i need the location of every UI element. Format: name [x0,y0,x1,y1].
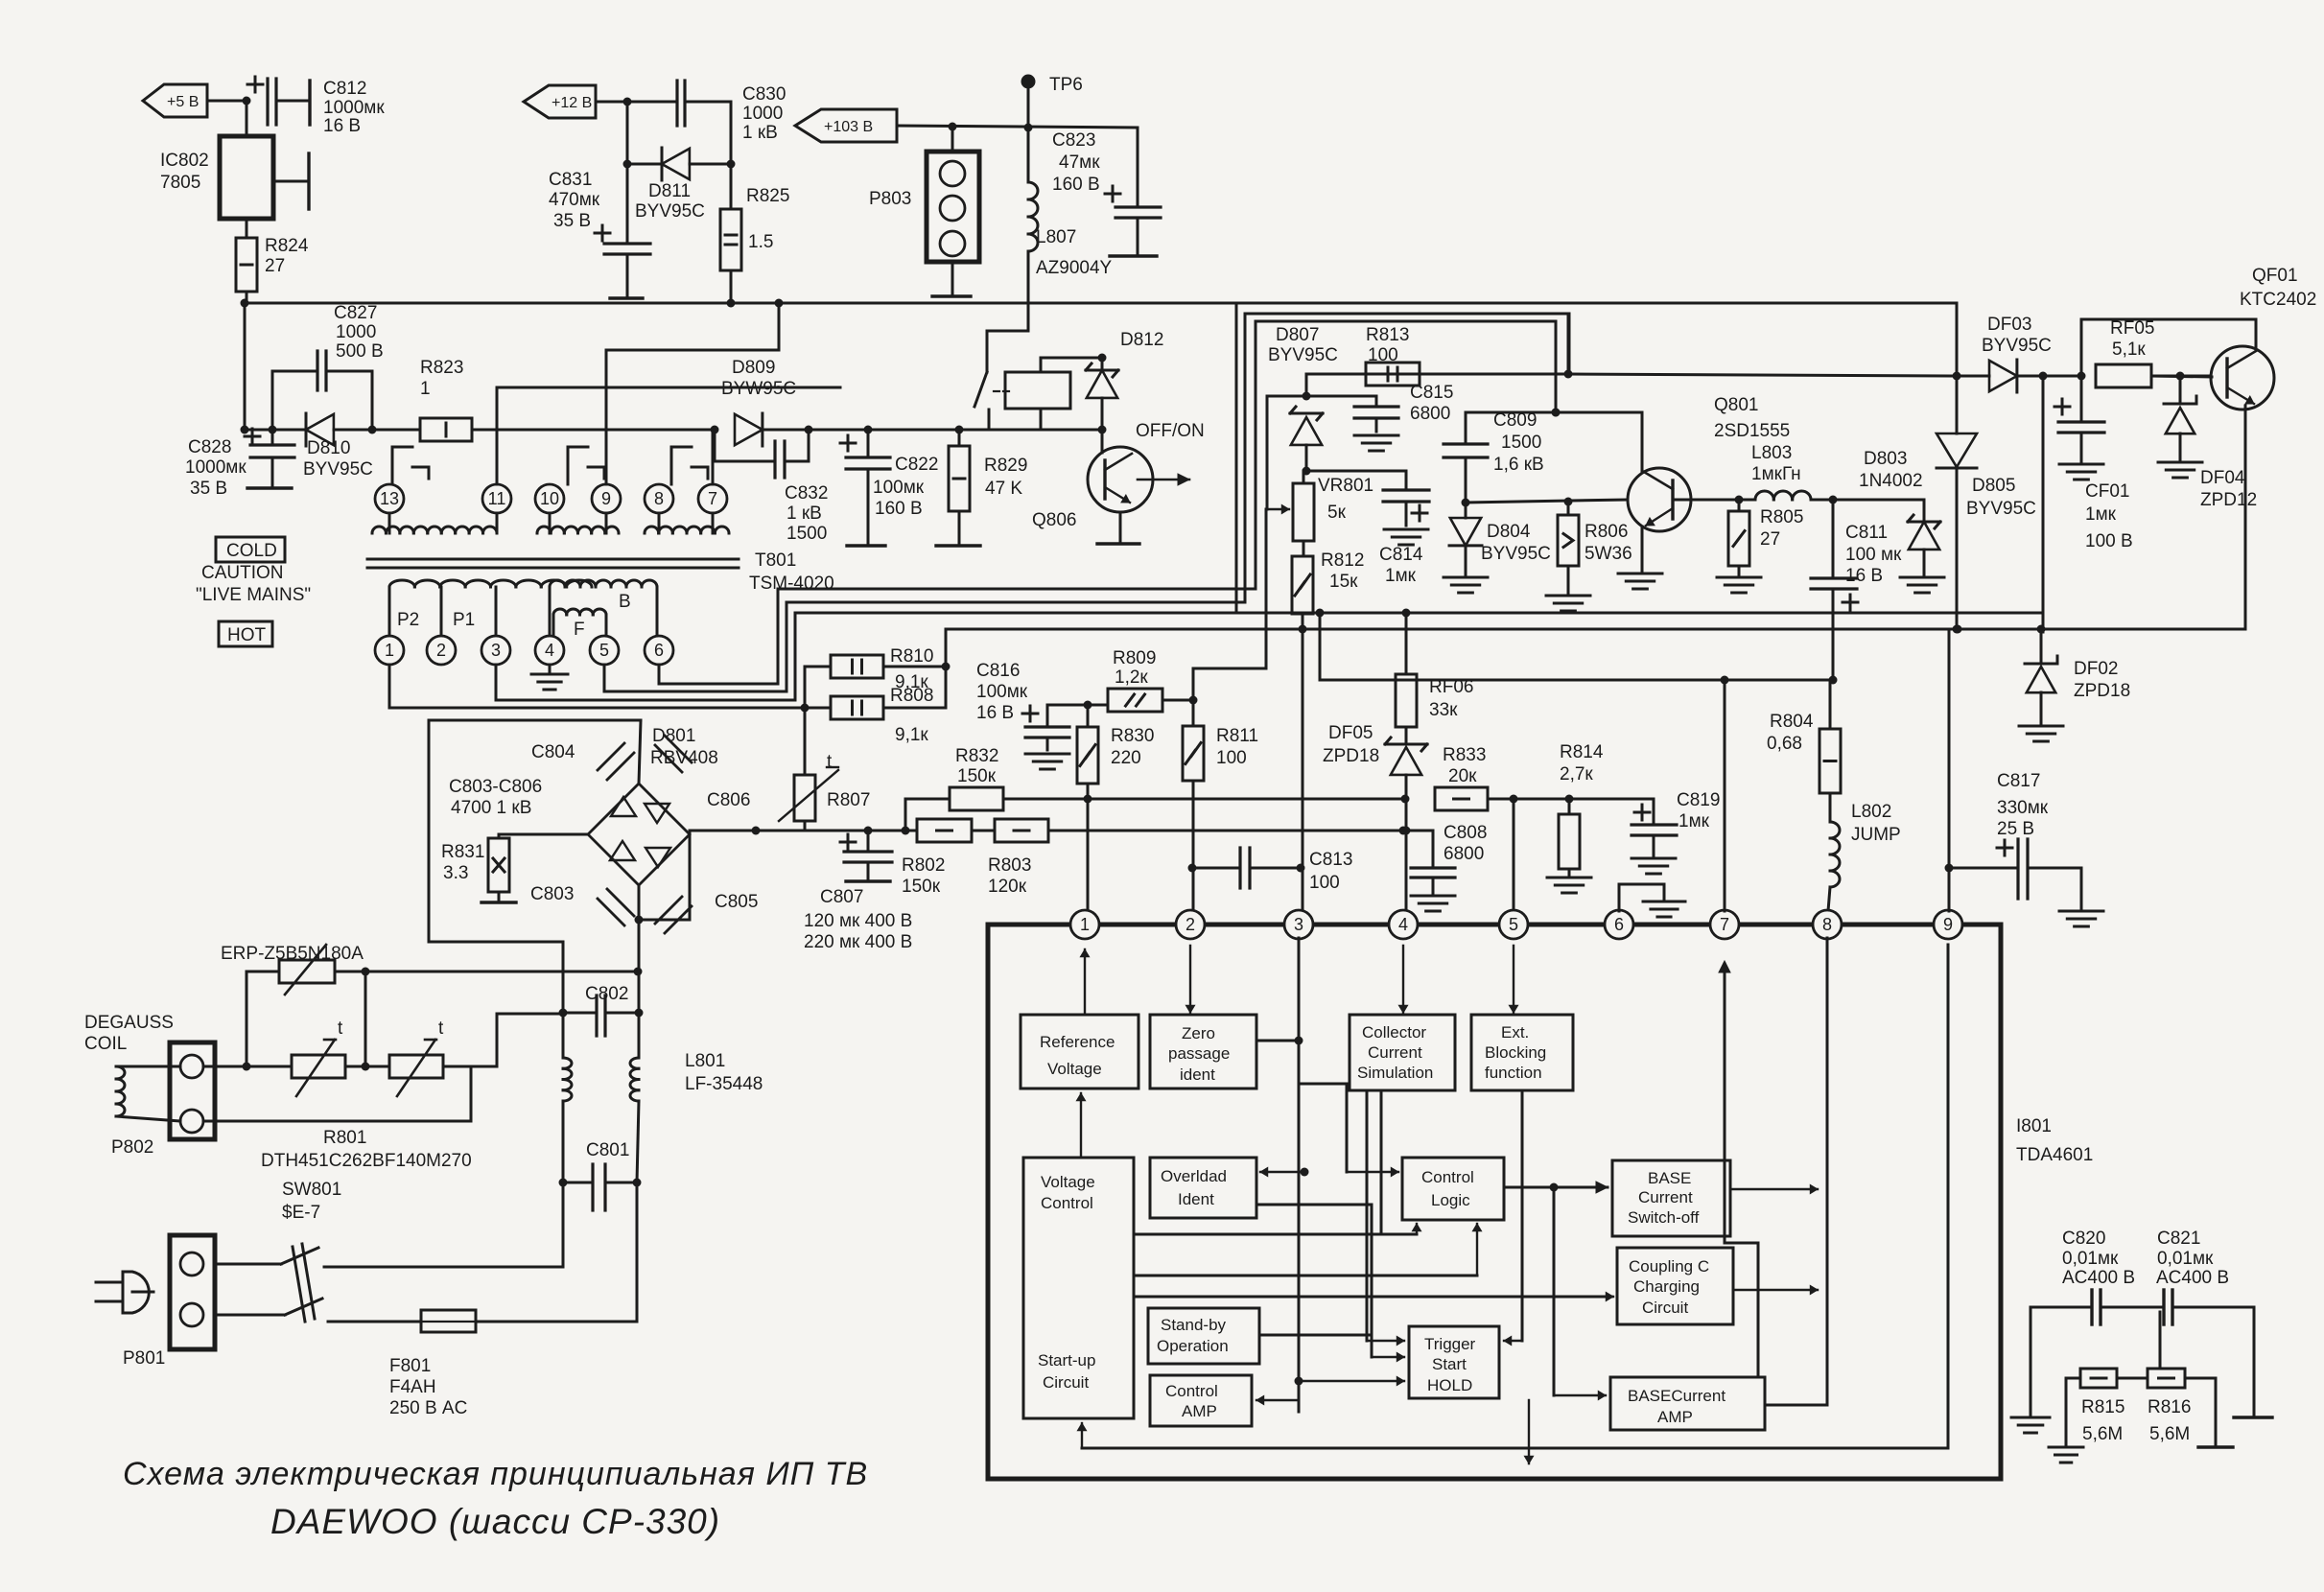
svg-text:3: 3 [1294,915,1303,934]
wire [1765,1404,1827,1407]
connector P802 [170,1042,215,1139]
svg-text:RF05: RF05 [2110,318,2154,339]
svg-text:C809: C809 [1493,410,1537,431]
svg-text:AC400 В: AC400 В [2062,1268,2135,1288]
label C805 [715,892,758,912]
label D812 [1120,330,1163,350]
svg-text:OFF/ON: OFF/ON [1136,421,1205,441]
svg-text:2: 2 [436,641,446,660]
label R805 [1760,507,1803,550]
relay coil [1005,354,1107,431]
svg-text:DF03: DF03 [1987,315,2031,335]
block Control AMP [1150,1375,1252,1426]
svg-text:1000: 1000 [742,104,783,124]
svg-text:100 В: 100 В [2085,531,2133,551]
svg-text:t: t [338,1018,343,1039]
svg-text:C805: C805 [715,892,758,912]
label R823 [420,358,463,399]
svg-text:160 В: 160 В [875,499,923,519]
block Zero passage ident [1150,1015,1256,1089]
svg-text:8: 8 [654,489,664,508]
svg-text:6800: 6800 [1410,404,1450,424]
resistor RF06 [1396,613,1417,727]
svg-text:4700 1 кВ: 4700 1 кВ [451,798,531,818]
label C820 [2062,1229,2135,1288]
svg-text:1 кВ: 1 кВ [786,503,822,524]
resistor R825 [720,164,741,270]
svg-text:BYV95C: BYV95C [1481,544,1551,564]
svg-text:100 мк: 100 мк [1845,545,1902,565]
svg-text:25 В: 25 В [1997,819,2034,839]
label DF03 [1982,315,2052,356]
wire pin9 top [1948,868,1951,911]
svg-text:Trigger: Trigger [1424,1335,1476,1353]
svg-text:100: 100 [1368,345,1398,365]
svg-text:BASE: BASE [1648,1169,1691,1187]
label R816 [2148,1397,2191,1444]
svg-text:R808: R808 [890,686,933,706]
wire [1299,1376,1404,1385]
svg-text:330мк: 330мк [1997,798,2049,818]
svg-text:8: 8 [1822,915,1832,934]
svg-text:470мк: 470мк [549,190,600,210]
svg-text:D812: D812 [1120,330,1163,350]
svg-text:Q801: Q801 [1714,395,1758,415]
svg-text:AZ9004Y: AZ9004Y [1036,258,1113,278]
label R814 [1560,742,1604,784]
svg-text:1000мк: 1000мк [323,98,385,118]
label C832 [785,483,828,544]
label OFF/ON [1136,421,1205,441]
label C809 [1493,410,1544,475]
svg-text:D804: D804 [1487,522,1531,542]
svg-text:9,1к: 9,1к [895,725,928,745]
pin 6 [645,636,673,665]
ground [531,665,568,690]
label D809 [721,358,796,399]
svg-text:7805: 7805 [160,173,200,193]
ground wire [936,511,980,546]
wire [1466,409,1642,417]
label C813 [1309,850,1352,893]
label R833 [1443,745,1486,786]
svg-text:R809: R809 [1113,648,1156,668]
svg-text:BYV95C: BYV95C [635,201,705,222]
svg-text:DAEWOO (шасси СР-330): DAEWOO (шасси СР-330) [270,1502,720,1541]
block Voltage Control Start-up Circuit [1023,1158,1134,1418]
svg-text:2: 2 [1185,915,1195,934]
svg-text:R824: R824 [265,236,309,256]
connector P803 [927,127,979,295]
svg-text:150к: 150к [957,766,997,786]
svg-text:3.3: 3.3 [443,863,468,883]
wire [1488,795,1654,804]
svg-text:100мк: 100мк [873,478,925,498]
block BASECurrent AMP [1610,1377,1765,1430]
svg-text:C803-C806: C803-C806 [449,777,542,797]
regulator IC802 [220,136,273,219]
capacitor C830 [627,81,731,126]
label C801 [586,1140,629,1160]
label VR801 [1318,476,1373,523]
svg-text:5: 5 [1509,915,1518,934]
label L807 [1036,227,1113,278]
svg-text:100: 100 [1309,873,1340,893]
label C814 [1379,545,1423,586]
svg-text:R816: R816 [2148,1397,2191,1417]
diode D809 [735,413,813,446]
svg-text:ZPD18: ZPD18 [2074,681,2130,701]
svg-text:1,2к: 1,2к [1115,667,1148,688]
svg-text:ident: ident [1180,1065,1215,1084]
wire arrow ref [1076,1093,1085,1158]
svg-text:BYV95C: BYV95C [303,459,373,480]
wire [635,920,644,1018]
svg-text:R812: R812 [1321,550,1364,571]
label Q801 [1714,395,1790,441]
label C806 [707,790,750,810]
wire [1134,1224,1482,1276]
svg-text:220: 220 [1111,748,1141,768]
svg-text:1мк: 1мк [2085,504,2117,525]
IC pin 4 [1389,910,1418,939]
label R829 [984,456,1027,499]
label C830 [742,84,786,143]
label R830 [1111,726,1154,768]
label C821 [2156,1229,2229,1288]
IC pin 6 [1605,910,1633,939]
svg-text:C811: C811 [1845,523,1888,543]
pin 10 [535,484,564,513]
svg-text:Current: Current [1638,1188,1693,1206]
resistor R831 [481,834,588,902]
label P802 [111,1137,153,1158]
label R809 [1113,648,1156,688]
label C828 [185,437,246,499]
svg-text:HOLD: HOLD [1427,1376,1472,1394]
wire [497,387,840,484]
switch [974,331,1028,430]
svg-text:Simulation: Simulation [1357,1064,1433,1082]
svg-text:C808: C808 [1444,823,1487,843]
wire emitter QF01 [2043,406,2245,629]
svg-text:Control: Control [1165,1382,1218,1400]
svg-text:1000мк: 1000мк [185,457,246,478]
svg-text:15к: 15к [1329,572,1358,592]
svg-text:C822: C822 [895,455,938,475]
svg-text:AC400 В: AC400 В [2156,1268,2229,1288]
caption line2 [270,1502,720,1541]
svg-text:HOT: HOT [227,625,267,645]
svg-text:D809: D809 [732,358,775,378]
svg-text:160 В: 160 В [1052,175,1100,195]
label L803 [1751,443,1801,484]
svg-text:C817: C817 [1997,771,2040,791]
svg-text:Control: Control [1421,1168,1474,1186]
label D803 [1859,449,1923,491]
diode DF03 [1957,360,2048,392]
svg-text:AMP: AMP [1182,1402,1217,1420]
svg-text:Coupling C: Coupling C [1629,1257,1709,1276]
svg-text:4: 4 [1398,915,1408,934]
label C811 [1845,523,1902,586]
svg-text:1N4002: 1N4002 [1859,471,1923,491]
wire row [1048,827,1408,835]
wire pin6 bus [659,321,1561,684]
svg-text:SW801: SW801 [282,1180,341,1200]
wire [904,799,907,831]
svg-text:27: 27 [265,256,285,276]
svg-text:P801: P801 [123,1348,165,1369]
pin 5 [590,636,619,665]
capacitor C814 [1306,471,1429,545]
svg-text:1: 1 [1080,915,1090,934]
svg-text:+103 В: +103 В [824,119,873,135]
secondary winding [537,513,619,533]
wire [273,153,309,209]
secondary winding [372,513,497,533]
wire [1504,1090,1522,1346]
resistor R805 [1717,500,1761,593]
svg-text:0,68: 0,68 [1767,734,1802,754]
svg-text:9: 9 [601,489,611,508]
wire [246,101,248,136]
connector P801 [153,1235,215,1349]
diode D805 [1937,303,1977,634]
winding B [550,580,657,636]
thermistor R801b [203,972,389,1096]
svg-text:R811: R811 [1216,726,1258,746]
wire [712,430,715,484]
resistor R803 [995,819,1048,842]
fuse F801 [421,1310,637,1332]
wire pin8 inner [1826,938,1829,1405]
label T801 [749,550,834,594]
svg-text:13: 13 [380,489,399,508]
svg-text:Control: Control [1041,1194,1093,1212]
svg-text:R823: R823 [420,358,463,378]
wire row [1569,374,1957,376]
caption line1 [123,1456,868,1492]
ground pin6 [1619,884,1685,917]
wire [959,429,989,432]
svg-text:Q806: Q806 [1032,510,1076,530]
label Q806 [1032,510,1076,530]
label C804 [531,742,575,762]
IC pin 5 [1499,910,1528,939]
svg-text:C831: C831 [549,170,592,190]
svg-text:RBV408: RBV408 [650,748,718,768]
svg-text:Reference: Reference [1040,1033,1115,1051]
label F801 [389,1356,467,1418]
diode D807 wire [1303,374,1570,401]
svg-text:C828: C828 [188,437,231,457]
inductor L803 [1739,491,1838,504]
resistor R809 [1088,689,1162,712]
label D811 [635,181,705,222]
svg-text:D811: D811 [648,181,691,201]
wire pin3 bus [496,613,2043,700]
svg-text:C819: C819 [1677,790,1720,810]
svg-text:R830: R830 [1111,726,1154,746]
svg-text:Logic: Logic [1431,1191,1470,1209]
wire collector QF01 [2081,319,2256,376]
label R824 [265,236,309,276]
svg-text:120к: 120к [988,877,1027,897]
svg-text:4: 4 [545,641,554,660]
pin 11 [482,484,511,513]
svg-text:L803: L803 [1751,443,1792,463]
wire [1673,496,1744,504]
svg-text:C804: C804 [531,742,575,762]
block Overldad Ident [1150,1158,1256,1218]
resistor R824 [236,238,257,292]
block BASE Current Switch-off [1612,1160,1730,1236]
svg-text:COLD: COLD [226,541,277,561]
svg-text:16 В: 16 В [323,116,361,136]
label IC802 [160,151,209,193]
thermistor R801c [389,1040,497,1096]
svg-text:150к: 150к [902,877,941,897]
label B [619,592,631,612]
svg-text:F801: F801 [389,1356,431,1376]
wire [1299,1084,1398,1177]
svg-text:1500: 1500 [786,524,827,544]
svg-text:TSM-4020: TSM-4020 [749,574,834,594]
wire bridge out [635,831,691,925]
svg-text:R802: R802 [902,855,945,876]
svg-text:BYV95C: BYV95C [1982,336,2052,356]
label C803 [530,884,574,904]
capacitor C816 [1025,701,1092,770]
svg-text:C813: C813 [1309,850,1352,870]
label HOT [219,621,272,646]
label P801 [123,1348,165,1369]
svg-text:R810: R810 [890,646,933,667]
block Stand-by Operation [1148,1308,1259,1364]
label ERP [221,944,364,964]
IC pin 3 [1284,910,1313,939]
svg-text:passage: passage [1168,1044,1230,1063]
secondary winding [645,513,729,533]
wire [1134,1224,1421,1234]
winding hook [392,447,429,484]
wire row [946,625,2046,634]
label P803 [869,189,911,209]
svg-text:$E-7: $E-7 [282,1203,320,1223]
wire [1380,1090,1383,1234]
wire [1513,799,1515,919]
test point TP6 [1022,76,1034,128]
svg-text:BYV95C: BYV95C [1268,345,1338,365]
label C822 [873,455,938,519]
primary winding P2 P1 [389,580,592,636]
svg-text:R831: R831 [441,842,484,862]
svg-text:C814: C814 [1379,545,1423,565]
svg-text:100мк: 100мк [976,682,1028,702]
svg-text:Ext.: Ext. [1501,1023,1529,1042]
resistor R810 [805,655,883,708]
label C812 [323,79,385,136]
label CAUTION [201,563,284,583]
label R811 [1216,726,1258,768]
svg-text:t: t [438,1018,444,1039]
wire [1504,1182,1818,1295]
label t [438,1018,444,1039]
wire [372,429,420,432]
capacitor C822 [840,430,890,545]
label R831 [441,842,484,883]
resistor R823 [420,418,472,441]
capacitor C808 [1403,831,1455,911]
wire [623,102,632,169]
svg-text:R829: R829 [984,456,1027,476]
wire [1554,1187,1606,1400]
svg-text:Blocking: Blocking [1485,1043,1546,1062]
svg-text:9: 9 [1943,915,1953,934]
svg-text:35 В: 35 В [190,479,227,499]
svg-text:Схема электрическая принципи: Схема электрическая принципиальная ИП ТВ [123,1456,868,1492]
svg-text:CF01: CF01 [2085,481,2129,502]
inductor L801 [563,1013,639,1182]
svg-text:R807: R807 [827,790,870,810]
wire [246,219,248,238]
svg-text:C816: C816 [976,661,1020,681]
svg-text:D807: D807 [1276,325,1319,345]
svg-text:Operation: Operation [1157,1337,1229,1355]
svg-text:Current: Current [1368,1043,1422,1062]
zener diode DF05 [1385,727,1427,919]
label R804 [1767,712,1814,754]
svg-text:5,1к: 5,1к [2112,339,2146,360]
label COLD [216,537,285,562]
wire [596,98,632,106]
resistor R833 [1435,787,1488,810]
label L802 [1851,802,1901,845]
resistor R811 [1183,700,1204,919]
svg-text:250 В AC: 250 В AC [389,1398,467,1418]
label DEGAUSS COIL [84,1013,174,1054]
label L801 [685,1051,763,1094]
capacitor C802 [559,942,640,1036]
wire [2234,1307,2272,1417]
transistor QF01 [2151,346,2274,410]
wire [1256,1040,1299,1042]
label TP6 [1049,75,1083,95]
svg-text:T801: T801 [755,550,796,571]
wire [241,303,249,434]
svg-text:1: 1 [420,379,431,399]
svg-text:C820: C820 [2062,1229,2105,1249]
pin 7 [698,484,727,513]
label R813 [1366,325,1409,365]
label R802 [902,855,945,897]
svg-text:16 В: 16 В [1845,566,1883,586]
svg-text:Switch-off: Switch-off [1628,1208,1700,1227]
svg-text:R804: R804 [1770,712,1814,732]
label P1 [453,610,475,630]
svg-text:ERP-Z5B5N180A: ERP-Z5B5N180A [221,944,364,964]
wire [1256,1335,1404,1405]
label RF06 [1429,677,1473,720]
svg-text:220 мк 400 В: 220 мк 400 В [804,932,912,952]
wire [207,97,251,105]
svg-text:F: F [574,620,585,640]
svg-text:R833: R833 [1443,745,1486,765]
zener diode D812 [1086,358,1118,430]
svg-text:RF06: RF06 [1429,677,1473,697]
wire [1524,1400,1533,1463]
